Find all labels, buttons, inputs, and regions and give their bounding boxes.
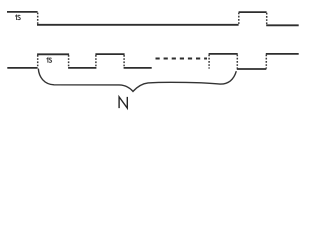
wire: CH2 low segment after pulse3 [237,68,266,70]
brace: spans N pulses [38,69,236,92]
wire: CH1 final low segment [266,24,299,26]
wire: CH1 end pulse high segment [239,11,267,13]
wire: CH2 pulse3 falling edge (dotted) [236,55,238,69]
label: N (number of pulses) [119,97,127,108]
wire: CH2 pulse1 high segment [37,53,69,55]
label: 1S (top trace pulse width) [15,15,20,20]
wire: CH2 pulse2 rising edge (dotted) [95,55,97,67]
wire: CH1 initial high segment [7,11,38,13]
wire: CH1 rising edge (dotted) [238,13,240,25]
wire: CH2 low segment after pulse2 [124,67,152,69]
wire: CH2 pulse3 high segment [209,53,238,55]
wire: CH1 long low segment [37,24,239,26]
wire: CH2 pulse2 high segment [95,53,124,55]
wire: CH2 low segment between pulse1 and pulse2 [68,67,96,69]
wire: CH2 pulse2 falling edge (dotted) [123,55,125,67]
wire: CH2 pulse1 falling edge (dotted) [68,55,70,67]
wire: CH2 pulse1 rising edge (dotted) [37,55,39,67]
wire: CH2 initial low segment [7,67,37,69]
wire: CH2 pulse3 rising edge (dotted) [208,55,210,69]
label: 1S (bottom trace pulse width) [47,58,52,63]
wire: CH2 pulse4 rising edge (dotted) [265,55,267,69]
trace 1 (top waveform) [7,12,299,25]
trace 2 (bottom waveform) [7,54,298,69]
wire: CH1 end pulse falling edge (dotted) [266,13,268,25]
wire: CH1 falling edge (dotted) [37,13,39,25]
wire: continuation ellipsis (dashed) [156,58,208,60]
wire: CH2 pulse4 high segment [266,53,299,55]
